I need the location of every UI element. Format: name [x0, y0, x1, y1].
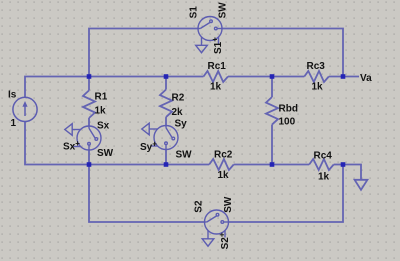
node R1 top — [87, 74, 92, 79]
node R2 top — [164, 74, 169, 79]
wire Rbd bottom lead — [271, 125, 273, 165]
wire bottom left — [89, 165, 205, 223]
switch S2 — [202, 210, 229, 246]
wire top left vertical — [89, 29, 198, 77]
junction dots — [87, 74, 346, 167]
resistor Rc2 — [209, 159, 234, 170]
svg-text:Va: Va — [360, 73, 372, 84]
svg-text:1k: 1k — [210, 82, 222, 93]
wire Rbd top lead — [271, 77, 273, 98]
ground — [343, 165, 361, 180]
resistor Rbd — [266, 97, 278, 125]
node Sy bottom — [164, 162, 169, 167]
wire Sx to mid — [88, 150, 90, 165]
node R1 bottom — [87, 162, 92, 167]
svg-text:Is: Is — [8, 90, 17, 101]
node Rc4 right — [341, 162, 346, 167]
resistor R2 — [160, 90, 172, 118]
wire Sy to mid — [165, 150, 167, 165]
svg-text:Rc4: Rc4 — [314, 151, 333, 162]
current source Is — [13, 97, 37, 121]
svg-text:Rc2: Rc2 — [214, 150, 233, 161]
wire Rc1 to Rc3 — [228, 76, 304, 78]
svg-text:SW: SW — [223, 196, 234, 213]
resistor R1 — [83, 90, 95, 118]
svg-text:SW: SW — [176, 150, 193, 161]
svg-text:1k: 1k — [312, 82, 324, 93]
node Rbd bottom — [270, 162, 275, 167]
wire top right — [222, 29, 343, 77]
wire R2 to Sy — [165, 117, 167, 125]
svg-text:100: 100 — [279, 117, 296, 128]
svg-text:2k: 2k — [172, 107, 184, 118]
resistor Rc1 — [204, 71, 229, 82]
resistor Rc4 — [309, 159, 334, 170]
wire Rc3 to node Va — [329, 76, 359, 78]
wire bottom right — [229, 165, 344, 223]
svg-text:1k: 1k — [95, 106, 107, 117]
wire Rc2 to Rc4 — [234, 164, 310, 166]
svg-text:S2: S2 — [194, 200, 205, 213]
svg-text:Sx: Sx — [97, 121, 110, 132]
switch S1 — [196, 17, 223, 53]
node Rbd top — [270, 74, 275, 79]
svg-text:1: 1 — [11, 118, 17, 129]
wire R1 to Sx — [88, 118, 90, 126]
wire mid horizontal left — [25, 122, 209, 165]
switch Sy — [142, 123, 178, 150]
node Va junction — [341, 74, 346, 79]
wire R1 column top — [88, 77, 90, 91]
svg-text:SW: SW — [218, 2, 229, 19]
wire R2 column top — [165, 77, 167, 90]
svg-text:R1: R1 — [95, 92, 108, 103]
svg-text:Rbd: Rbd — [279, 104, 298, 115]
wire Rc4 to junction — [334, 164, 343, 166]
svg-text:Sy: Sy — [175, 119, 188, 130]
svg-text:Rc3: Rc3 — [307, 61, 326, 72]
svg-text:SW: SW — [97, 148, 114, 159]
svg-text:1k: 1k — [218, 170, 230, 181]
resistor Rc3 — [304, 71, 329, 82]
svg-text:Rc1: Rc1 — [208, 61, 227, 72]
svg-text:R2: R2 — [172, 93, 185, 104]
switch Sx — [65, 124, 101, 151]
wire upper horizontal left — [25, 77, 204, 98]
svg-text:S1: S1 — [189, 6, 200, 19]
svg-text:1k: 1k — [318, 172, 330, 183]
